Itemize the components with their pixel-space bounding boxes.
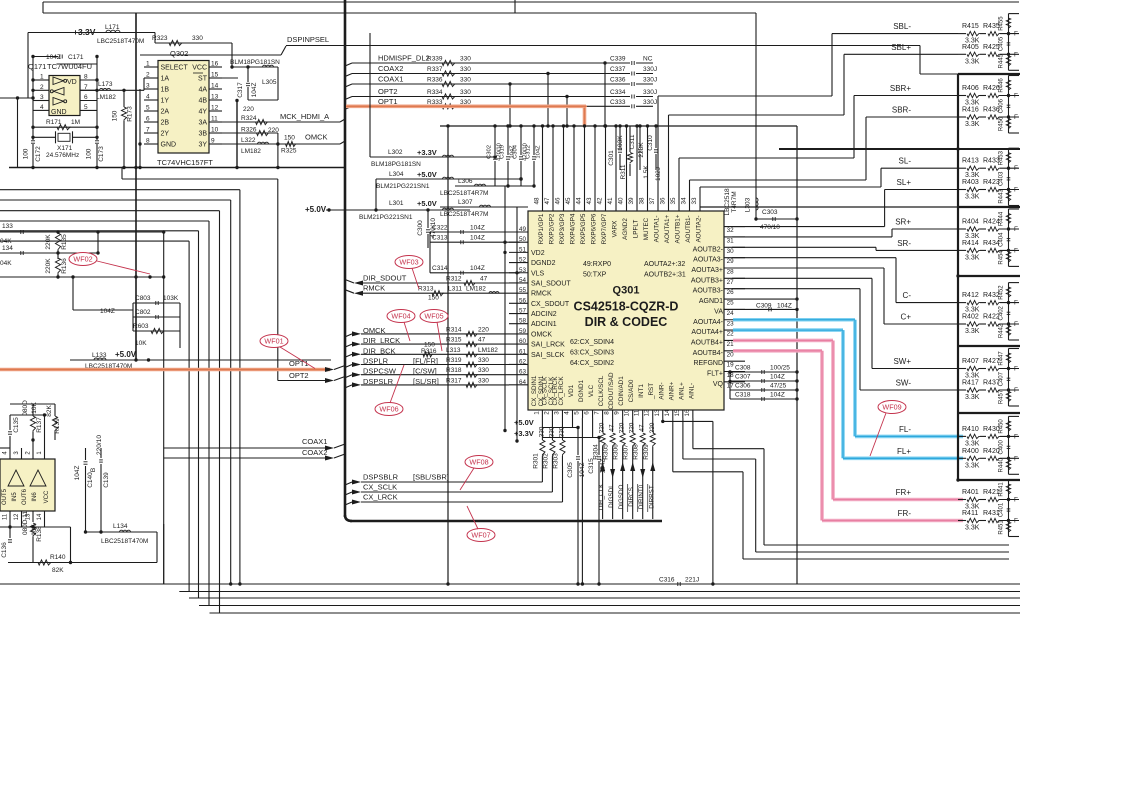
- svg-text:13: 13: [211, 94, 219, 101]
- svg-text:MUTEC: MUTEC: [643, 217, 650, 240]
- svg-text:TC7WU04FU: TC7WU04FU: [47, 62, 92, 71]
- svg-text:WF03: WF03: [399, 258, 418, 267]
- svg-text:220: 220: [478, 326, 489, 333]
- svg-text:DIRINT0: DIRINT0: [638, 484, 645, 509]
- svg-text:C301: C301: [608, 150, 615, 166]
- svg-text:63:CX_SDIN3: 63:CX_SDIN3: [570, 350, 614, 357]
- svg-text:47: 47: [480, 276, 488, 283]
- svg-text:133: 133: [2, 223, 13, 230]
- svg-text:R173: R173: [127, 106, 134, 122]
- svg-text:LM182: LM182: [241, 148, 261, 155]
- svg-text:C319: C319: [500, 145, 506, 159]
- svg-text:220K: 220K: [45, 258, 52, 274]
- svg-text:LBC2518T470M: LBC2518T470M: [97, 38, 144, 45]
- svg-text:R339: R339: [427, 56, 443, 63]
- svg-text:R336: R336: [427, 77, 443, 84]
- svg-text:104Z: 104Z: [470, 235, 485, 242]
- svg-text:AOUTB1-: AOUTB1-: [685, 215, 692, 242]
- svg-text:R301: R301: [532, 453, 539, 469]
- svg-text:R317: R317: [446, 377, 462, 384]
- svg-text:+3.3V: +3.3V: [417, 148, 437, 157]
- svg-text:AINR-: AINR-: [658, 382, 665, 399]
- svg-text:6: 6: [146, 116, 150, 123]
- svg-text:VD1: VD1: [568, 384, 575, 397]
- svg-text:103K: 103K: [617, 135, 624, 151]
- svg-text:F: F: [1014, 93, 1018, 100]
- svg-text:24.576MHz: 24.576MHz: [46, 152, 79, 159]
- svg-text:R413: R413: [962, 158, 979, 165]
- svg-text:34: 34: [681, 197, 688, 205]
- svg-text:L134: L134: [113, 523, 128, 530]
- svg-text:RMCK: RMCK: [531, 291, 552, 298]
- svg-text:SAI_LRCK: SAI_LRCK: [531, 342, 565, 349]
- svg-text:F: F: [1014, 247, 1018, 254]
- svg-text:37: 37: [649, 197, 656, 205]
- svg-text:OPT2: OPT2: [378, 87, 398, 96]
- svg-text:R326: R326: [241, 127, 257, 134]
- svg-text:BLM21PG221SN1: BLM21PG221SN1: [376, 183, 430, 190]
- svg-text:C334: C334: [610, 89, 626, 96]
- svg-text:DSPSBLR: DSPSBLR: [363, 473, 399, 482]
- svg-text:82K: 82K: [46, 405, 53, 417]
- svg-text:IN6: IN6: [32, 492, 38, 502]
- svg-text:L306: L306: [458, 178, 473, 185]
- svg-text:C403: C403: [999, 171, 1005, 186]
- svg-text:4Y: 4Y: [198, 109, 207, 116]
- svg-text:8: 8: [84, 74, 88, 81]
- svg-text:L302: L302: [388, 149, 403, 156]
- svg-text:C333: C333: [610, 99, 626, 106]
- svg-text:AOUTB4-: AOUTB4-: [693, 350, 724, 357]
- svg-text:R319: R319: [446, 357, 462, 364]
- svg-text:+5.0V: +5.0V: [305, 205, 327, 214]
- svg-text:AOUTA4-: AOUTA4-: [693, 319, 723, 326]
- svg-text:C317: C317: [237, 82, 244, 98]
- svg-text:53: 53: [519, 267, 527, 274]
- svg-text:C407: C407: [999, 371, 1005, 386]
- svg-text:R334: R334: [427, 89, 443, 96]
- svg-text:3.3K: 3.3K: [965, 525, 980, 532]
- svg-text:_RST: _RST: [648, 383, 655, 400]
- svg-text:L313: L313: [446, 347, 461, 354]
- svg-text:B: B: [90, 468, 97, 472]
- svg-text:8: 8: [146, 138, 150, 145]
- svg-text:50:TXP: 50:TXP: [583, 272, 607, 279]
- svg-text:WF04: WF04: [391, 312, 410, 321]
- svg-text:R437: R437: [983, 380, 1000, 387]
- svg-text:C-: C-: [903, 291, 912, 300]
- svg-text:WF02: WF02: [73, 255, 92, 264]
- svg-text:R140: R140: [50, 554, 66, 561]
- svg-text:R307: R307: [623, 444, 630, 460]
- svg-text:1B: 1B: [161, 87, 170, 94]
- svg-text:WF09: WF09: [882, 403, 901, 412]
- svg-text:330J: 330J: [643, 89, 657, 96]
- svg-text:R423: R423: [983, 179, 1000, 186]
- svg-text:CX_LRCK: CX_LRCK: [558, 376, 565, 406]
- svg-text:+5.0V: +5.0V: [417, 199, 437, 208]
- svg-text:ADCIN1: ADCIN1: [531, 321, 557, 328]
- svg-text:+5.0V: +5.0V: [115, 350, 137, 359]
- svg-text:14: 14: [664, 409, 671, 417]
- svg-text:10: 10: [624, 409, 631, 417]
- svg-text:C140: C140: [87, 472, 94, 488]
- svg-text:26: 26: [727, 289, 735, 296]
- svg-text:330J: 330J: [643, 66, 657, 73]
- svg-text:64: 64: [519, 379, 527, 386]
- svg-text:13: 13: [654, 409, 661, 417]
- svg-text:R434: R434: [983, 240, 1000, 247]
- svg-text:VLS: VLS: [531, 270, 545, 277]
- svg-text:3Y: 3Y: [198, 142, 207, 149]
- svg-text:100: 100: [23, 148, 30, 159]
- svg-text:DIR & CODEC: DIR & CODEC: [585, 315, 668, 329]
- svg-text:OPT1: OPT1: [289, 359, 309, 368]
- svg-text:CX_SCLK: CX_SCLK: [548, 376, 555, 405]
- svg-text:R441: R441: [999, 482, 1005, 497]
- svg-text:16: 16: [211, 61, 219, 68]
- svg-text:F: F: [1014, 321, 1018, 328]
- svg-text:100: 100: [86, 148, 93, 159]
- svg-text:L311: L311: [448, 286, 462, 293]
- svg-text:AOUTA2-: AOUTA2-: [696, 216, 703, 243]
- svg-text:RXP2/GP2: RXP2/GP2: [549, 213, 556, 244]
- svg-text:40: 40: [618, 197, 625, 205]
- svg-text:104Z: 104Z: [470, 225, 485, 232]
- svg-text:FR-: FR-: [898, 509, 912, 518]
- svg-text:R603: R603: [133, 323, 149, 330]
- svg-text:R427: R427: [983, 358, 1000, 365]
- svg-text:3: 3: [146, 83, 150, 90]
- svg-text:1A: 1A: [161, 76, 170, 83]
- svg-text:C339: C339: [610, 56, 626, 63]
- svg-text:3.3K: 3.3K: [965, 394, 980, 401]
- svg-text:330: 330: [478, 357, 489, 364]
- svg-text:330: 330: [192, 35, 203, 42]
- svg-text:R430: R430: [983, 426, 1000, 433]
- svg-text:C406: C406: [999, 98, 1005, 113]
- svg-text:LBC2518T4R7M: LBC2518T4R7M: [440, 190, 488, 197]
- svg-text:SBL+: SBL+: [891, 43, 911, 52]
- svg-text:57: 57: [519, 308, 527, 315]
- svg-text:ADCIN2: ADCIN2: [531, 311, 557, 318]
- svg-text:R306: R306: [613, 444, 620, 460]
- svg-text:27: 27: [727, 279, 735, 286]
- svg-text:54: 54: [519, 277, 527, 284]
- svg-text:3.3K: 3.3K: [965, 100, 980, 107]
- svg-text:AGND1: AGND1: [699, 298, 723, 305]
- svg-text:SW-: SW-: [896, 379, 912, 388]
- svg-text:Q301: Q301: [613, 285, 640, 297]
- svg-text:F: F: [1014, 165, 1018, 172]
- svg-text:AOUTB4+: AOUTB4+: [691, 339, 723, 346]
- svg-text:R314: R314: [446, 326, 462, 333]
- svg-text:R337: R337: [427, 66, 443, 73]
- svg-text:C312: C312: [526, 145, 532, 159]
- svg-text:R455: R455: [999, 16, 1005, 31]
- svg-text:CX_SCLK: CX_SCLK: [363, 483, 397, 492]
- svg-text:103K: 103K: [163, 295, 179, 302]
- svg-text:104Z: 104Z: [470, 265, 485, 272]
- svg-text:C300: C300: [417, 220, 424, 236]
- svg-text:2: 2: [146, 72, 150, 79]
- svg-text:5: 5: [574, 411, 581, 415]
- svg-text:3.3K: 3.3K: [965, 121, 980, 128]
- svg-text:R135: R135: [61, 234, 68, 250]
- svg-text:48: 48: [534, 197, 541, 205]
- svg-text:C171: C171: [68, 54, 84, 61]
- svg-text:220: 220: [599, 422, 606, 433]
- svg-text:C318: C318: [735, 392, 751, 399]
- svg-text:VA: VA: [714, 308, 723, 315]
- svg-text:F: F: [1014, 114, 1018, 121]
- svg-text:T4R7M: T4R7M: [731, 191, 738, 212]
- svg-text:C316: C316: [659, 577, 675, 584]
- svg-text:SAI_SDOUT: SAI_SDOUT: [531, 280, 571, 287]
- svg-text:[SBL/SBR]: [SBL/SBR]: [413, 473, 449, 482]
- svg-text:VLC: VLC: [588, 384, 595, 397]
- svg-text:R302: R302: [542, 453, 549, 469]
- svg-text:220: 220: [243, 106, 254, 113]
- svg-text:31: 31: [727, 237, 735, 244]
- svg-text:R443: R443: [999, 189, 1005, 204]
- svg-text:3: 3: [40, 94, 44, 101]
- svg-text:R420: R420: [983, 448, 1000, 455]
- svg-text:63: 63: [519, 369, 527, 376]
- svg-text:DIR_SDOUT: DIR_SDOUT: [363, 274, 407, 283]
- svg-text:CDIN/AD1: CDIN/AD1: [618, 376, 625, 406]
- svg-text:WF07: WF07: [471, 531, 490, 540]
- svg-text:CX_LRCK: CX_LRCK: [363, 493, 398, 502]
- svg-text:C313: C313: [432, 235, 448, 242]
- svg-text:[FL/FR]: [FL/FR]: [413, 357, 438, 366]
- svg-text:WF01: WF01: [264, 337, 283, 346]
- svg-text:104Z: 104Z: [536, 145, 542, 159]
- svg-text:R425: R425: [983, 44, 1000, 51]
- svg-text:AOUTA3+: AOUTA3+: [691, 267, 723, 274]
- svg-text:R446: R446: [999, 78, 1005, 93]
- svg-text:BLM18PG181SN: BLM18PG181SN: [230, 59, 280, 66]
- svg-text:R309: R309: [643, 444, 650, 460]
- svg-text:470/10: 470/10: [760, 224, 780, 231]
- svg-text:R315: R315: [446, 337, 462, 344]
- svg-text:REFGND: REFGND: [693, 360, 723, 367]
- svg-text:LBC2518T4R7M: LBC2518T4R7M: [440, 211, 488, 218]
- svg-text:L303: L303: [745, 197, 752, 212]
- svg-text:3.3K: 3.3K: [965, 58, 980, 65]
- svg-text:R136: R136: [61, 258, 68, 274]
- svg-text:AINL-: AINL-: [688, 383, 695, 399]
- svg-text:23: 23: [727, 320, 735, 327]
- svg-text:F: F: [1014, 387, 1018, 394]
- svg-text:R405: R405: [962, 44, 979, 51]
- svg-text:R454: R454: [999, 250, 1005, 265]
- svg-text:AOUTB2-: AOUTB2-: [693, 246, 724, 253]
- svg-text:10K: 10K: [135, 340, 147, 347]
- svg-text:12: 12: [211, 105, 219, 112]
- svg-text:220: 220: [629, 422, 636, 433]
- svg-text:DGND1: DGND1: [578, 379, 585, 402]
- svg-text:47: 47: [478, 337, 486, 344]
- svg-text:+5.0V: +5.0V: [514, 418, 534, 427]
- svg-text:Q302: Q302: [170, 49, 188, 58]
- svg-text:150: 150: [112, 110, 119, 121]
- svg-text:C303: C303: [762, 209, 778, 216]
- svg-text:104Z: 104Z: [251, 83, 258, 98]
- svg-text:R137: R137: [36, 417, 43, 433]
- svg-text:SL-: SL-: [899, 157, 912, 166]
- svg-text:C405: C405: [999, 36, 1005, 51]
- svg-text:61: 61: [519, 348, 527, 355]
- svg-text:R324: R324: [241, 115, 257, 122]
- svg-text:L304: L304: [389, 171, 404, 178]
- svg-text:220: 220: [268, 127, 279, 134]
- svg-text:SBR-: SBR-: [892, 106, 911, 115]
- svg-text:R412: R412: [962, 292, 979, 299]
- svg-text:FR+: FR+: [896, 488, 912, 497]
- svg-text:11: 11: [3, 513, 9, 520]
- svg-text:150: 150: [284, 135, 295, 142]
- svg-text:R323: R323: [152, 35, 168, 42]
- svg-text:6: 6: [84, 94, 88, 101]
- svg-text:F: F: [1014, 518, 1018, 525]
- svg-text:+3.3V: +3.3V: [73, 27, 96, 37]
- svg-text:R442: R442: [999, 323, 1005, 338]
- svg-text:R303: R303: [552, 453, 559, 469]
- svg-text:R403: R403: [962, 179, 979, 186]
- svg-text:1: 1: [146, 61, 150, 68]
- svg-text:33: 33: [691, 197, 698, 205]
- svg-text:2: 2: [40, 84, 44, 91]
- svg-text:49: 49: [519, 226, 527, 233]
- svg-text:104Z: 104Z: [74, 466, 81, 481]
- svg-text:59: 59: [519, 328, 527, 335]
- svg-text:2B: 2B: [161, 120, 170, 127]
- svg-text:AOUTB2+:31: AOUTB2+:31: [644, 272, 686, 279]
- svg-text:32: 32: [727, 227, 735, 234]
- svg-text:WF06: WF06: [379, 405, 398, 414]
- svg-text:VCC: VCC: [192, 65, 207, 72]
- svg-text:C402: C402: [999, 305, 1005, 320]
- svg-text:DIRCS: DIRCS: [628, 487, 635, 507]
- svg-text:AINR+: AINR+: [668, 381, 675, 400]
- svg-text:C314: C314: [432, 265, 448, 272]
- svg-text:AOUTA2+:32: AOUTA2+:32: [644, 261, 685, 268]
- svg-text:WF05: WF05: [424, 312, 443, 321]
- svg-text:[C/SW]: [C/SW]: [413, 367, 437, 376]
- svg-text:220/10: 220/10: [96, 435, 103, 455]
- svg-text:L307: L307: [458, 199, 473, 206]
- svg-text:C304: C304: [513, 144, 519, 159]
- svg-text:104Z: 104Z: [46, 54, 61, 61]
- svg-text:15: 15: [674, 409, 681, 417]
- svg-text:TC74VHC157FT: TC74VHC157FT: [157, 158, 213, 167]
- svg-text:220K: 220K: [45, 234, 52, 250]
- svg-text:104Z: 104Z: [770, 374, 785, 381]
- svg-text:F: F: [1014, 51, 1018, 58]
- svg-text:SAI_SLCK: SAI_SLCK: [531, 352, 565, 359]
- svg-text:R435: R435: [983, 23, 1000, 30]
- svg-text:L322: L322: [241, 137, 256, 144]
- svg-text:7: 7: [594, 411, 601, 415]
- svg-text:OUT5: OUT5: [2, 488, 8, 505]
- svg-text:DIR_CLK: DIR_CLK: [598, 483, 605, 510]
- svg-text:SL+: SL+: [897, 178, 912, 187]
- svg-text:14: 14: [211, 83, 219, 90]
- svg-text:OUT6: OUT6: [22, 488, 28, 505]
- svg-text:3.3K: 3.3K: [965, 462, 980, 469]
- svg-text:4: 4: [146, 94, 150, 101]
- svg-text:R313: R313: [418, 286, 434, 293]
- svg-text:RXP3/GP3: RXP3/GP3: [559, 213, 566, 244]
- svg-text:104Z: 104Z: [777, 302, 792, 309]
- svg-text:+3.3V: +3.3V: [514, 429, 534, 438]
- svg-text:9: 9: [614, 411, 621, 415]
- svg-text:DSPINPSEL: DSPINPSEL: [287, 35, 329, 44]
- svg-text:R422: R422: [983, 314, 1000, 321]
- svg-text:GND: GND: [51, 109, 67, 116]
- svg-text:220: 220: [649, 422, 656, 433]
- svg-text:47/25: 47/25: [770, 383, 787, 390]
- svg-text:ST: ST: [198, 76, 208, 83]
- svg-text:330: 330: [478, 367, 489, 374]
- svg-text:R410: R410: [962, 426, 979, 433]
- svg-text:C308: C308: [735, 365, 751, 372]
- svg-text:R308: R308: [633, 444, 640, 460]
- svg-text:RXP1/GP1: RXP1/GP1: [538, 213, 545, 244]
- svg-text:4A: 4A: [198, 87, 207, 94]
- svg-text:LM182: LM182: [466, 286, 486, 293]
- svg-text:L173: L173: [98, 81, 113, 88]
- svg-text:16: 16: [684, 409, 691, 417]
- svg-text:C135: C135: [13, 417, 20, 433]
- svg-text:CDOUT/SAD: CDOUT/SAD: [608, 372, 615, 410]
- svg-text:330: 330: [478, 377, 489, 384]
- svg-text:VARX: VARX: [612, 220, 619, 237]
- svg-text:RXP6/GP6: RXP6/GP6: [591, 213, 598, 244]
- svg-text:R407: R407: [962, 358, 979, 365]
- svg-text:L305: L305: [262, 79, 277, 86]
- svg-text:Q171: Q171: [28, 62, 46, 71]
- svg-text:35: 35: [670, 197, 677, 205]
- svg-text:223K: 223K: [638, 142, 645, 158]
- svg-text:SBL-: SBL-: [893, 22, 911, 31]
- svg-text:221J: 221J: [685, 577, 699, 584]
- svg-text:C172: C172: [35, 146, 42, 162]
- svg-text:AGND2: AGND2: [622, 218, 629, 240]
- svg-text:SELECT: SELECT: [161, 65, 189, 72]
- svg-text:OMCK: OMCK: [305, 133, 328, 142]
- svg-text:R457: R457: [999, 389, 1005, 404]
- svg-text:C305: C305: [567, 462, 574, 478]
- svg-text:R432: R432: [983, 292, 1000, 299]
- svg-text:VCC: VCC: [44, 490, 50, 503]
- svg-text:C311: C311: [629, 134, 636, 149]
- svg-text:29: 29: [727, 258, 735, 265]
- svg-text:38: 38: [639, 197, 646, 205]
- svg-text:C322: C322: [432, 225, 448, 232]
- svg-text:R444: R444: [999, 211, 1005, 226]
- svg-text:55: 55: [519, 287, 527, 294]
- svg-text:R312: R312: [446, 276, 462, 283]
- svg-text:R304: R304: [593, 444, 600, 460]
- svg-text:330J: 330J: [643, 77, 657, 84]
- svg-text:4: 4: [563, 411, 570, 415]
- svg-text:DIRRST: DIRRST: [648, 485, 655, 509]
- svg-text:25: 25: [727, 300, 735, 307]
- svg-text:30: 30: [727, 248, 735, 255]
- svg-text:F: F: [1014, 226, 1018, 233]
